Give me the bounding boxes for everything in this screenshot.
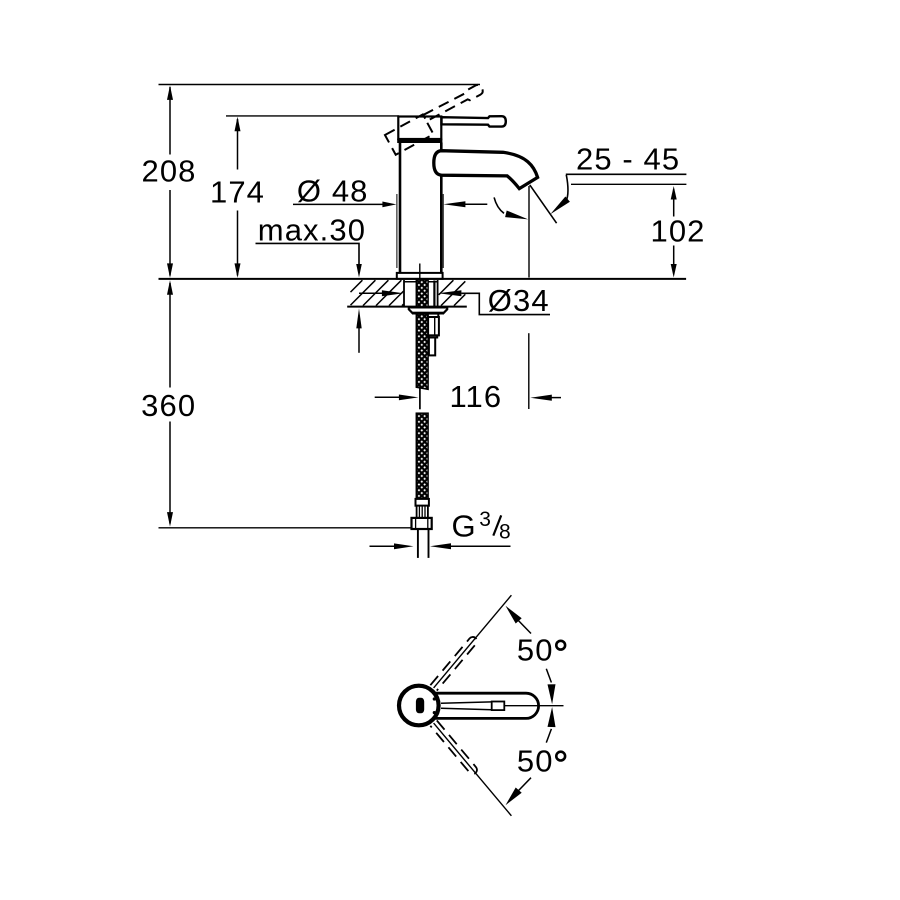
top view lever capsule — [435, 693, 539, 718]
index dot upper — [433, 697, 436, 700]
svg-text:25 - 45: 25 - 45 — [576, 141, 680, 176]
extension line bottom (360 ref) — [159, 527, 412, 529]
extension line: top of head (174 ref) — [226, 115, 399, 117]
extension line: spout outlet height — [571, 183, 686, 185]
dimension Ø34 — [359, 283, 550, 318]
extension line: stream below counter — [528, 333, 530, 409]
top view horizontal centerline — [505, 705, 564, 707]
dashed lever position upper — [430, 635, 478, 690]
svg-text:50: 50 — [517, 743, 554, 778]
svg-text:208: 208 — [141, 153, 196, 188]
cartridge mark — [416, 698, 424, 714]
dashed raised lever and head outline — [385, 83, 490, 154]
top view lever slot — [441, 702, 504, 711]
connection tube — [418, 529, 429, 558]
svg-text:G: G — [452, 509, 477, 544]
centerline top — [419, 264, 421, 286]
connector stack — [428, 314, 439, 356]
extension line: top of handle (208 ref) — [159, 84, 481, 86]
mounting nut — [404, 280, 438, 306]
svg-text:116: 116 — [450, 379, 503, 414]
counter thickness up arrow — [356, 308, 361, 352]
50 degree reference line upper — [434, 595, 512, 688]
stream reference line — [528, 186, 530, 278]
flange washer — [409, 307, 447, 313]
svg-text:3: 3 — [479, 508, 492, 531]
label max.30 with leader — [256, 213, 367, 278]
angle arc upper — [506, 606, 556, 705]
braided hose middle — [416, 314, 428, 390]
dimension 174 — [210, 117, 265, 278]
hose end fitting — [416, 499, 429, 518]
index dot lower — [433, 711, 436, 714]
counter hatching right — [439, 280, 466, 305]
dimension 360 — [141, 280, 196, 526]
counter bottom line — [347, 306, 467, 308]
coupling nut G3/8 — [412, 518, 432, 529]
svg-text:Ø 48: Ø 48 — [297, 174, 369, 209]
label 50 deg lower — [517, 743, 565, 778]
lever (horizontal position) — [442, 116, 506, 126]
svg-text:174: 174 — [210, 175, 265, 210]
dimension 102 — [651, 186, 706, 278]
top view faucet body circle — [399, 686, 439, 726]
dimension Ø48 — [293, 174, 487, 268]
braided hose lower — [416, 413, 428, 499]
braided hose upper (through counter) — [416, 280, 428, 308]
label 50 deg upper — [517, 633, 565, 668]
counter top line — [159, 278, 687, 280]
svg-text:Ø34: Ø34 — [488, 283, 550, 318]
svg-text:50: 50 — [517, 633, 554, 668]
mounting nut top edge — [404, 281, 438, 283]
faucet head (cartridge housing) — [397, 117, 442, 141]
svg-text:max.30: max.30 — [258, 213, 366, 248]
centerline at hose break — [419, 387, 421, 410]
dimension G3/8 — [370, 508, 512, 549]
svg-text:102: 102 — [651, 214, 706, 249]
angle arc arrow right — [550, 175, 570, 214]
svg-text:8: 8 — [499, 521, 512, 544]
base plate — [397, 273, 443, 279]
dimension 208 — [141, 85, 196, 278]
dashed lever position lower — [430, 720, 478, 775]
svg-text:360: 360 — [141, 388, 196, 423]
spout — [434, 151, 538, 189]
counter hatching left — [351, 280, 404, 305]
angle arc lower — [506, 707, 556, 805]
50 degree reference line lower — [434, 723, 512, 816]
faucet body — [400, 143, 441, 273]
dimension 116 — [375, 379, 561, 414]
angle arc arrow left — [494, 197, 528, 219]
spray angle line — [530, 185, 557, 223]
